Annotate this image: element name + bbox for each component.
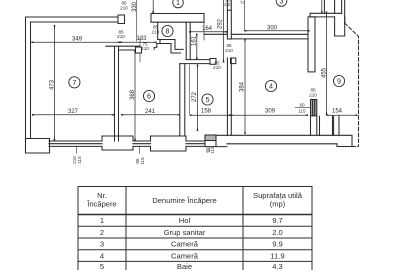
wall: room5 top wall (180, 60, 210, 64)
svg-text:115: 115 (140, 157, 145, 165)
svg-text:Cameră: Cameră (171, 240, 199, 249)
svg-text:3: 3 (100, 240, 104, 249)
wall: stub pier right of balcony door (334, 116, 339, 135)
svg-text:Denumire Încăpere: Denumire Încăpere (152, 196, 217, 205)
wall: divider room7/room6 (115, 47, 119, 142)
dim 473 line (54, 25, 56, 141)
dim line top right ext (321, 0, 323, 13)
wall: room8 bottom-left corner jog (158, 40, 184, 54)
svg-text:210: 210 (120, 5, 128, 10)
wall: room3/room4 divider (top wall of room 4) (231, 34, 310, 39)
wall: cap right of door to room4 (231, 58, 236, 64)
svg-text:330: 330 (132, 1, 138, 12)
svg-text:60: 60 (299, 103, 305, 108)
svg-text:210: 210 (225, 48, 233, 53)
svg-text:115: 115 (210, 146, 215, 154)
wall: hall top wall segment (204, 33, 227, 35)
window: glazed strip in room4/room9 wall (311, 100, 317, 116)
wall: bottom band right section outline (205, 135, 352, 147)
TABLE (78, 187, 312, 270)
dim 292 line (223, 0, 225, 63)
node room 3 (276, 0, 287, 6)
dim 241 line (121, 114, 180, 116)
svg-text:Încăpere: Încăpere (86, 200, 117, 209)
wall: top-right block (335, 17, 345, 36)
dim 60/115 small fraction bar (295, 107, 311, 109)
svg-text:4: 4 (100, 251, 104, 260)
wire: partition line right of room8 (203, 22, 205, 40)
svg-text:Grup sanitar: Grup sanitar (164, 228, 206, 237)
wall: bottom-left corner block (26, 139, 50, 154)
svg-text:115: 115 (77, 156, 82, 164)
svg-text:210: 210 (117, 34, 125, 39)
svg-text:(mp): (mp) (270, 200, 286, 209)
wire: extension line x140 (139, 37, 141, 62)
wall: divider room5/room4 (227, 0, 231, 136)
svg-text:9.9: 9.9 (272, 240, 283, 249)
dim 158 line (190, 114, 231, 116)
svg-text:11.9: 11.9 (270, 251, 284, 260)
dim 300 line (245, 30, 310, 32)
svg-text:Cameră: Cameră (171, 251, 199, 260)
svg-text:Hol: Hol (179, 216, 191, 225)
dim 272 line (197, 65, 199, 132)
svg-text:158: 158 (201, 109, 212, 115)
window: room7 bottom window (210/115) (49, 141, 102, 146)
svg-text:473: 473 (49, 79, 55, 90)
wall: room8 left wall (157, 22, 159, 39)
dim 164 line (189, 31, 227, 33)
svg-text:210: 210 (152, 29, 160, 34)
wall: room9 top band (310, 13, 342, 17)
svg-text:4: 4 (269, 82, 273, 91)
svg-text:5: 5 (206, 95, 210, 104)
wall: under-glazing wall pier (311, 116, 317, 136)
window: room6 bottom window (85/115) (133, 141, 151, 146)
svg-text:7: 7 (72, 78, 76, 87)
svg-text:9: 9 (337, 77, 341, 86)
wall: bottom block B (102, 136, 133, 150)
svg-text:309: 309 (265, 109, 276, 115)
svg-text:272: 272 (192, 91, 198, 102)
svg-text:154: 154 (332, 109, 343, 115)
svg-text:241: 241 (145, 109, 156, 115)
node room 9 (333, 75, 344, 86)
ROOM NUMBER CIRCLES (69, 0, 345, 105)
svg-text:3: 3 (280, 0, 284, 6)
svg-text:2.0: 2.0 (272, 228, 283, 237)
node room 7 (69, 77, 80, 88)
svg-text:1: 1 (176, 0, 180, 7)
wall: door cap left (75/210 door) (136, 47, 142, 53)
dim 349 line (32, 41, 121, 43)
dim 161 line (196, 34, 198, 60)
svg-text:2: 2 (100, 228, 104, 237)
window: room5 bottom window (186, 141, 205, 146)
svg-text:6: 6 (147, 92, 151, 101)
wall: bottom block C (151, 136, 187, 151)
wire: extension line x136.5 top (136, 0, 138, 42)
svg-text:292: 292 (217, 18, 223, 29)
dim 327 line (32, 114, 114, 116)
dim 154 line (327, 114, 358, 116)
svg-text:74: 74 (240, 0, 246, 5)
wall: door jamb steps left of room6 corner (154, 44, 160, 50)
node room 1 (173, 0, 184, 8)
wall: divider room6/room5 (180, 64, 185, 136)
svg-text:210: 210 (213, 65, 221, 70)
wire: extension line x244 (243, 0, 245, 31)
wall: cap at end of room5 top wall (210, 59, 216, 65)
wall: room4 left wall upper column (227, 10, 231, 39)
svg-text:115: 115 (298, 108, 306, 113)
wall: top-right column (342, 0, 345, 23)
wall: band under door 85/210 (room7/hall) (106, 46, 140, 50)
wall: balcony door jambs (320, 116, 333, 135)
node room 4 (265, 80, 276, 91)
wall: room8 top slab (151, 14, 204, 23)
svg-text:349: 349 (72, 37, 83, 43)
svg-text:164: 164 (202, 26, 213, 32)
svg-text:8: 8 (166, 27, 170, 36)
dim 368 line (134, 51, 136, 141)
svg-text:368: 368 (130, 89, 136, 100)
svg-text:210: 210 (309, 92, 317, 97)
svg-text:327: 327 (68, 109, 79, 115)
wall: left outer wall of room 7 (26, 17, 119, 152)
node room 6 (143, 90, 154, 101)
svg-text:455: 455 (321, 67, 327, 78)
window: hatched window under room5/4 (205, 135, 216, 141)
svg-text:384: 384 (240, 81, 246, 92)
svg-text:1: 1 (100, 216, 104, 225)
svg-text:161: 161 (192, 35, 198, 46)
wall: room8 right wall (186, 22, 190, 59)
node room 8 (162, 25, 173, 36)
wall: room3/room9 divider going up (324, 0, 334, 13)
dim 133 line (120, 41, 157, 43)
wall: room4/room9 divider upper part (308, 17, 315, 72)
dashed balcony outline (345, 23, 359, 147)
wire: window label leaders (77, 146, 210, 153)
node room 5 (202, 94, 213, 105)
wire: extension line x189.4 (188, 65, 190, 115)
svg-text:9.7: 9.7 (272, 216, 283, 225)
wall: left inner wall of room 7 (31, 22, 119, 141)
wall: top wall end cap (118, 15, 125, 24)
svg-text:Baie: Baie (177, 262, 192, 270)
dim line top hall (152, 0, 154, 13)
svg-text:5: 5 (100, 262, 104, 270)
dim 384 line (244, 39, 246, 134)
svg-text:4.3: 4.3 (272, 262, 283, 270)
dim 455 line (326, 12, 328, 116)
svg-text:300: 300 (267, 26, 278, 32)
dim 309 line (231, 114, 309, 116)
svg-text:210: 210 (141, 46, 149, 51)
svg-text:210: 210 (224, 2, 232, 7)
DIMENSIONS (32, 0, 358, 154)
